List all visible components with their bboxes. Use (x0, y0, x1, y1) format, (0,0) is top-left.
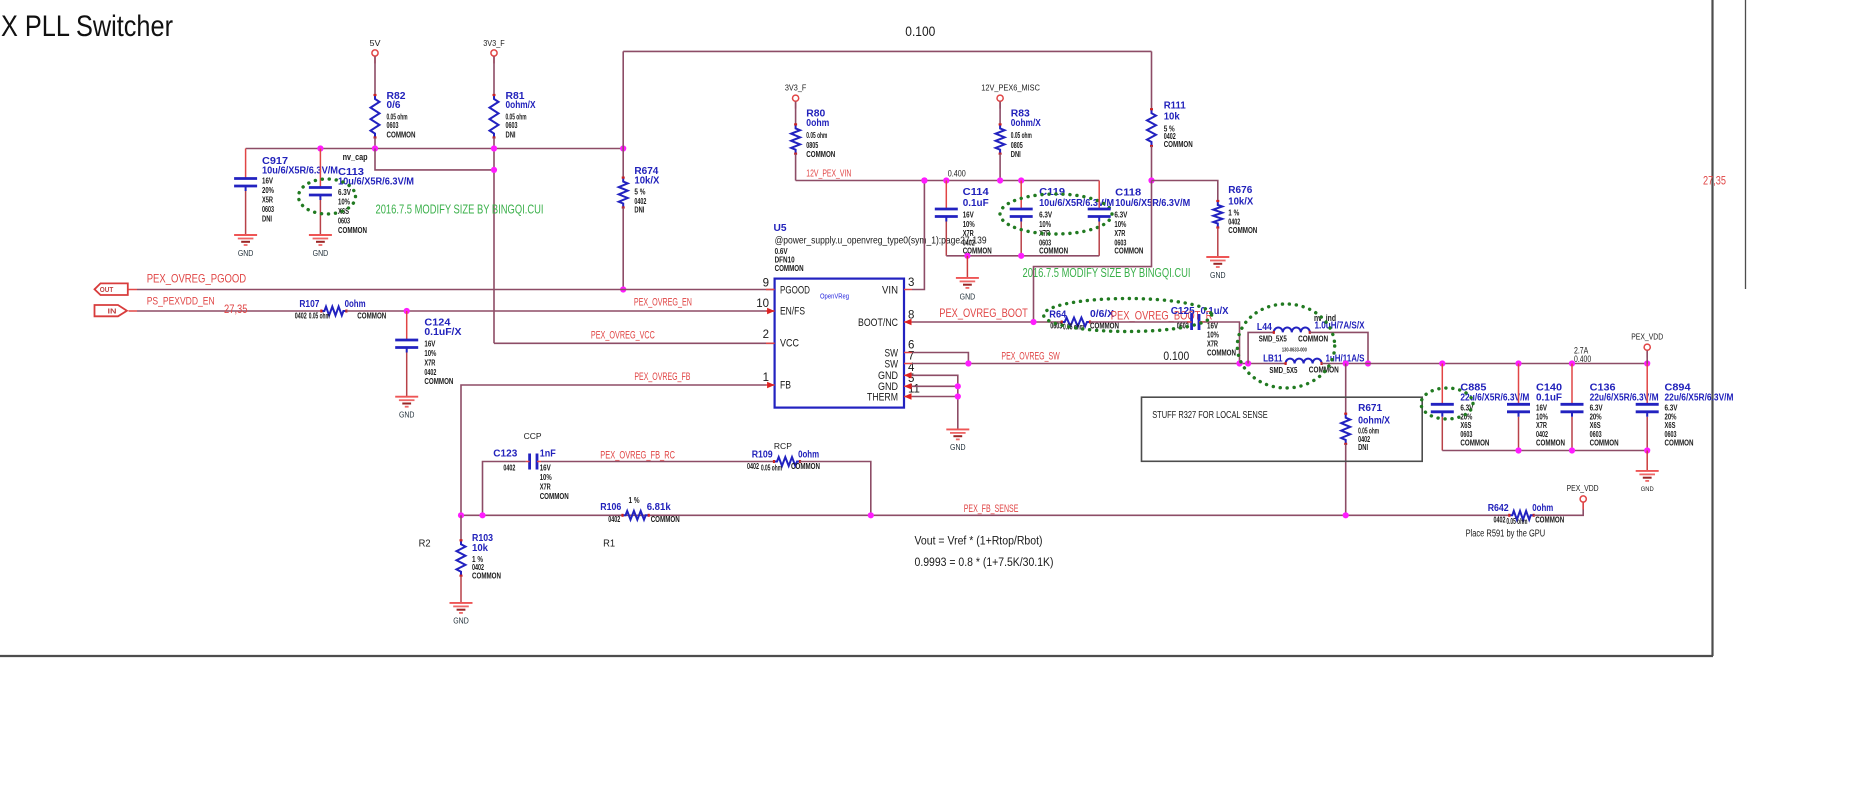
svg-text:OUT: OUT (100, 287, 114, 294)
wire R109 to right leg (800, 462, 871, 516)
svg-text:0.05 ohm: 0.05 ohm (309, 312, 330, 321)
svg-text:GND: GND (313, 249, 329, 258)
wire R81 to VCC corner (493, 138, 495, 344)
svg-text:C118: C118 (1115, 188, 1141, 199)
power symbol PEX_VDD second (1580, 496, 1586, 502)
ground under C113 (319, 234, 321, 236)
junction R82 bottom (372, 145, 378, 151)
U5 pin stubs (766, 289, 775, 291)
svg-text:X7R: X7R (963, 229, 974, 238)
wire PGOOD (137, 289, 775, 291)
ground under C894 (1646, 451, 1648, 471)
svg-text:R642: R642 (1488, 503, 1509, 514)
svg-text:LB11: LB11 (1263, 353, 1283, 364)
wire R82 to rail (374, 138, 376, 149)
svg-text:27,35: 27,35 (1703, 174, 1726, 188)
svg-text:OpenVReg: OpenVReg (820, 292, 849, 301)
junction GND pin 5 (955, 383, 961, 389)
svg-text:0.1uF/X: 0.1uF/X (424, 327, 461, 338)
note box STUFF R327 (1142, 397, 1423, 461)
capacitor C136 (1571, 364, 1573, 405)
resistor R107 (321, 307, 346, 316)
svg-text:COMMON: COMMON (1535, 515, 1564, 524)
resistor R674 (619, 178, 628, 208)
svg-text:0402: 0402 (503, 464, 515, 473)
junction FB vertical (458, 512, 464, 518)
svg-text:0.100: 0.100 (905, 24, 935, 39)
wire LB11 to output rail (1322, 363, 1648, 365)
svg-text:0.05 ohm: 0.05 ohm (1011, 131, 1032, 140)
junction caps bottom (1515, 447, 1521, 453)
svg-text:COMMON: COMMON (540, 492, 569, 501)
wire R642 to PEX_VDD (1534, 502, 1584, 515)
svg-text:1nF: 1nF (540, 448, 556, 459)
wire 12V_PEX_VIN rail (796, 180, 1100, 182)
inductor L44 (1274, 328, 1310, 333)
svg-text:PEX_OVREG_SW: PEX_OVREG_SW (1001, 350, 1060, 362)
green dotted ellipse around L44 LB11 (1237, 304, 1334, 388)
junction C136 at rail (1569, 360, 1575, 366)
svg-text:GND: GND (950, 443, 966, 452)
resistor R109 (774, 457, 800, 466)
svg-text:10%: 10% (424, 349, 436, 358)
svg-text:COMMON: COMMON (1298, 334, 1328, 343)
junction R674 top rail (620, 145, 626, 151)
svg-text:SW: SW (885, 358, 899, 370)
svg-text:COMMON: COMMON (387, 131, 416, 140)
svg-text:2016.7.5 MODIFY SIZE BY BINGQI: 2016.7.5 MODIFY SIZE BY BINGQI.CUI (376, 202, 544, 217)
svg-text:RCP: RCP (774, 441, 792, 451)
capacitor C113 (319, 149, 321, 188)
wire rail to R676 (1152, 181, 1218, 202)
svg-text:C123: C123 (493, 448, 517, 459)
svg-text:10%: 10% (1207, 331, 1219, 340)
svg-text:10k: 10k (472, 543, 488, 554)
junction C885 at rail (1439, 360, 1445, 366)
svg-text:0603: 0603 (506, 121, 518, 130)
svg-text:20%: 20% (1665, 412, 1677, 421)
junction BOOT cap at SW (1236, 360, 1242, 366)
resistor R106 (623, 511, 649, 520)
wire R80 to rail (795, 154, 797, 181)
svg-text:IN: IN (108, 309, 117, 316)
svg-text:0805: 0805 (806, 141, 818, 150)
resistor R82 (371, 95, 380, 138)
svg-text:6.3V: 6.3V (1590, 404, 1604, 413)
capacitor C140 (1518, 364, 1520, 405)
wire OUT stub (129, 289, 138, 291)
junction dots 12V rail (921, 177, 927, 183)
junction R674 at PGOOD (620, 286, 626, 292)
svg-text:0603: 0603 (1665, 430, 1677, 439)
wire rail A down to R111 (1151, 51, 1153, 109)
wire R676 to ground (1217, 228, 1219, 258)
svg-text:GND: GND (399, 411, 415, 420)
border inner vertical line (1745, 0, 1747, 289)
capacitor C123 (528, 454, 531, 470)
wire rail A down to R674 (622, 51, 624, 177)
resistor R64 (1062, 318, 1090, 327)
wire BOOT from U5 pin 8 (912, 321, 1062, 323)
resistor R83 (996, 124, 1005, 153)
capacitor C124 (406, 311, 408, 340)
svg-text:X6S: X6S (1460, 421, 1471, 430)
svg-text:R107: R107 (299, 299, 319, 310)
ground under C124 (406, 396, 408, 398)
svg-text:R671: R671 (1358, 403, 1382, 414)
resistor R642 (1509, 511, 1533, 520)
svg-text:C114: C114 (963, 187, 989, 198)
svg-text:0ohm: 0ohm (806, 118, 829, 129)
green dotted ellipse around C119 (1000, 194, 1112, 234)
U5 pin arrows (767, 308, 775, 314)
junction gnd tap (964, 253, 970, 259)
svg-text:0.05 ohm: 0.05 ohm (1506, 517, 1527, 526)
wire GND pin 4 (912, 375, 958, 429)
capacitor C125 (1190, 314, 1193, 330)
wire C123 to R109 (541, 461, 774, 463)
svg-text:COMMON: COMMON (1590, 439, 1619, 448)
wire LB11 tap down to R671 (1345, 364, 1347, 414)
svg-text:0402: 0402 (424, 368, 436, 377)
junction R671 bottom (1343, 512, 1349, 518)
svg-text:COMMON: COMMON (1536, 439, 1565, 448)
svg-text:R111: R111 (1164, 100, 1186, 111)
svg-text:PEX_VDD: PEX_VDD (1567, 483, 1599, 493)
svg-text:X PLL Switcher: X PLL Switcher (1, 10, 173, 43)
svg-text:X6S: X6S (1665, 421, 1676, 430)
svg-text:X5R: X5R (262, 196, 273, 205)
svg-text:FB: FB (780, 380, 791, 392)
svg-text:0.100: 0.100 (1163, 349, 1189, 363)
junction L44 at output (1365, 360, 1371, 366)
capacitor C894 (1646, 364, 1648, 405)
svg-text:VCC: VCC (780, 337, 799, 349)
svg-text:10%: 10% (1039, 220, 1051, 229)
ground under C917 (245, 234, 247, 236)
green dotted ellipse around C885 (1421, 388, 1473, 419)
junction C119 bottom (1018, 253, 1024, 259)
svg-text:0.05 ohm: 0.05 ohm (806, 131, 827, 140)
wire FB sense down to R103 (460, 515, 462, 540)
ground under cap group (966, 256, 968, 278)
ground under U5 (957, 428, 959, 430)
svg-text:0402: 0402 (608, 515, 620, 524)
power symbol 3V3_F (491, 50, 497, 56)
svg-text:COMMON: COMMON (1114, 247, 1143, 256)
svg-text:R1: R1 (603, 539, 615, 550)
svg-text:0ohm: 0ohm (1532, 503, 1553, 514)
capacitor C118 (1098, 181, 1100, 210)
svg-text:3V3_F: 3V3_F (483, 38, 505, 48)
wire SW pin 7 to inductors (912, 363, 1286, 365)
svg-text:COMMON: COMMON (1309, 366, 1339, 375)
resistor R111 (1147, 109, 1156, 146)
svg-text:COMMON: COMMON (1228, 226, 1257, 235)
wire SW up to L44 (1248, 332, 1274, 363)
svg-text:X7R: X7R (1114, 229, 1125, 238)
svg-text:DNI: DNI (634, 206, 644, 215)
svg-text:COMMON: COMMON (806, 150, 835, 159)
svg-text:16V: 16V (424, 340, 436, 349)
wire FB_RC left leg (483, 462, 526, 516)
wire IN stub (129, 310, 138, 312)
svg-text:SMD_5X5: SMD_5X5 (1269, 366, 1297, 375)
svg-text:X7R: X7R (1536, 421, 1547, 430)
junction R111 at rail (1148, 177, 1154, 183)
junction L44 branch at SW (1245, 360, 1251, 366)
svg-text:PEX_OVREG_PGOOD: PEX_OVREG_PGOOD (147, 272, 247, 286)
svg-text:0603: 0603 (262, 205, 274, 214)
svg-text:CCP: CCP (524, 431, 542, 441)
svg-text:0805: 0805 (1011, 141, 1023, 150)
svg-text:16V: 16V (262, 177, 274, 186)
svg-text:0402: 0402 (295, 312, 307, 321)
junction R81 bottom (491, 145, 497, 151)
svg-text:0603: 0603 (387, 121, 399, 130)
svg-text:X7R: X7R (1207, 339, 1218, 348)
wire output caps bottom (1442, 450, 1647, 452)
wire VIN pin to rail (912, 181, 924, 290)
svg-text:PEX_FB_SENSE: PEX_FB_SENSE (964, 503, 1019, 515)
svg-text:0ohm: 0ohm (345, 299, 366, 310)
svg-text:R676: R676 (1228, 185, 1252, 196)
border right line (1711, 0, 1713, 656)
svg-text:nv_cap: nv_cap (343, 152, 368, 162)
svg-text:DNI: DNI (506, 131, 516, 140)
junction C894 PEX_VDD at rail (1644, 360, 1650, 366)
wire nv_cap net (375, 149, 494, 170)
svg-text:VIN: VIN (882, 284, 898, 296)
svg-text:PEX_OVREG_FB: PEX_OVREG_FB (634, 371, 690, 383)
wire EN to R107 (137, 310, 321, 312)
svg-text:COMMON: COMMON (1207, 348, 1236, 357)
svg-text:X7R: X7R (540, 482, 551, 491)
svg-text:6.3V: 6.3V (1114, 211, 1128, 220)
junction nv_cap at 3V3 vertical (491, 167, 497, 173)
svg-text:22u/6/X5R/6.3V/M: 22u/6/X5R/6.3V/M (1590, 392, 1659, 403)
junction C124 tap (404, 308, 410, 314)
svg-text:0.1uF: 0.1uF (963, 198, 989, 209)
svg-text:PEX_OVREG_VCC: PEX_OVREG_VCC (591, 329, 655, 341)
svg-text:12V_PEX_VIN: 12V_PEX_VIN (806, 167, 851, 179)
svg-text:PEX_VDD: PEX_VDD (1631, 332, 1663, 342)
svg-text:R106: R106 (600, 502, 621, 513)
wire R671 to FB sense line (1345, 444, 1347, 515)
svg-text:10k/X: 10k/X (1228, 196, 1253, 207)
svg-text:3: 3 (908, 277, 914, 289)
resistor R81 (490, 95, 499, 138)
svg-text:R2: R2 (419, 539, 431, 550)
svg-text:COMMON: COMMON (651, 515, 680, 524)
svg-text:130-0633-000: 130-0633-000 (1282, 347, 1307, 353)
svg-text:U5: U5 (774, 223, 787, 234)
svg-text:6.3V: 6.3V (1665, 404, 1679, 413)
svg-text:6.3V: 6.3V (338, 188, 352, 197)
svg-text:GND: GND (1210, 271, 1226, 280)
ground under R676 (1217, 256, 1219, 258)
svg-text:0ohm: 0ohm (798, 450, 819, 461)
wire top rail y148 (246, 148, 624, 150)
svg-text:16V: 16V (963, 211, 975, 220)
wire C125 to SW net (1204, 322, 1240, 364)
svg-text:12V_PEX6_MISC: 12V_PEX6_MISC (981, 83, 1040, 93)
capacitor C917 (245, 149, 247, 179)
svg-text:PEX_OVREG_FB_RC: PEX_OVREG_FB_RC (600, 449, 675, 461)
svg-text:X7R: X7R (424, 359, 435, 368)
svg-text:10%: 10% (338, 198, 350, 207)
svg-text:0.05 ohm: 0.05 ohm (1358, 426, 1379, 435)
svg-text:X6S: X6S (1590, 421, 1601, 430)
green dotted ellipse around C113 (299, 179, 356, 214)
power symbol 5V (372, 50, 378, 56)
wire cap group bottom (946, 255, 1099, 257)
svg-text:10k: 10k (1164, 111, 1180, 122)
resistor R80 (791, 124, 800, 153)
svg-text:0/6: 0/6 (387, 100, 401, 111)
svg-text:COMMON: COMMON (338, 226, 367, 235)
svg-text:10%: 10% (1536, 412, 1548, 421)
svg-text:10u/6/X5R/6.3V/M: 10u/6/X5R/6.3V/M (1115, 198, 1190, 209)
wire R674 to PGOOD line (622, 208, 624, 290)
wire FB from U5 pin 1 (461, 385, 766, 515)
svg-text:COMMON: COMMON (472, 571, 501, 580)
svg-text:6.81k: 6.81k (647, 502, 671, 513)
wire R111 to 12V rail junction (1151, 146, 1153, 181)
wire branch to BOOT net (1034, 181, 1152, 323)
wire R64 to C125 (1090, 321, 1192, 323)
junction FB_RC right (868, 512, 874, 518)
svg-text:22u/6/X5R/6.3V/M: 22u/6/X5R/6.3V/M (1665, 392, 1734, 403)
wire R103 to ground (460, 576, 462, 603)
svg-text:Place R591 by the GPU: Place R591 by the GPU (1466, 528, 1546, 539)
svg-text:C119: C119 (1039, 187, 1065, 198)
svg-text:0603: 0603 (1590, 430, 1602, 439)
svg-text:3V3_F: 3V3_F (785, 83, 807, 93)
svg-text:EN/FS: EN/FS (780, 306, 805, 318)
border bottom line (0, 655, 1713, 657)
svg-text:0ohm/X: 0ohm/X (1358, 416, 1390, 427)
svg-text:COMMON: COMMON (1039, 247, 1068, 256)
svg-text:PEX_OVREG_BOOT_R: PEX_OVREG_BOOT_R (1111, 309, 1213, 323)
svg-text:1 %: 1 % (1228, 208, 1239, 217)
svg-text:20%: 20% (1590, 412, 1602, 421)
power symbol PEX_VDD (1644, 344, 1650, 350)
junction SW pins (965, 360, 971, 366)
svg-text:GND: GND (960, 293, 976, 302)
svg-text:GND: GND (238, 249, 254, 258)
wire SW pin 6 (912, 353, 968, 364)
wire L44 to output rail (1310, 332, 1368, 363)
wire GND pin 5 (912, 385, 958, 387)
svg-text:10u/6/X5R/6.3V/M: 10u/6/X5R/6.3V/M (262, 166, 338, 177)
svg-text:0.400: 0.400 (1574, 354, 1591, 364)
svg-text:SMD_5X5: SMD_5X5 (1259, 334, 1287, 343)
svg-text:1.0uH/7A/S/X: 1.0uH/7A/S/X (1315, 321, 1365, 332)
capacitor C885 (1441, 364, 1443, 405)
svg-text:R64: R64 (1049, 310, 1066, 321)
junction FB_RC left (479, 512, 485, 518)
green dotted ellipse around R64 BOOT (1044, 299, 1212, 332)
svg-text:DNI: DNI (1011, 150, 1021, 159)
wire THERM pin 11 (912, 396, 958, 398)
svg-text:COMMON: COMMON (1665, 439, 1694, 448)
svg-text:10%: 10% (1114, 220, 1126, 229)
wire 12V_PEX6_MISC to R83 (999, 102, 1001, 125)
svg-text:20%: 20% (262, 186, 274, 195)
svg-text:PS_PEXVDD_EN: PS_PEXVDD_EN (147, 296, 215, 308)
wire R107 to U5 pin 10 (346, 310, 774, 312)
svg-text:DNI: DNI (1358, 443, 1368, 452)
port IN (95, 305, 127, 316)
svg-text:COMMON: COMMON (791, 462, 820, 471)
svg-text:GND: GND (453, 617, 469, 626)
svg-text:10%: 10% (963, 220, 975, 229)
resistor R671 (1341, 414, 1350, 444)
svg-text:0603: 0603 (338, 217, 350, 226)
svg-text:COMMON: COMMON (1460, 439, 1489, 448)
svg-text:BOOT/NC: BOOT/NC (858, 317, 898, 329)
svg-text:COMMON: COMMON (1164, 140, 1193, 149)
svg-text:R109: R109 (752, 450, 773, 461)
svg-text:0402: 0402 (1536, 430, 1548, 439)
svg-text:PGOOD: PGOOD (780, 284, 810, 296)
junction C113 top (317, 145, 323, 151)
svg-text:10%: 10% (540, 473, 552, 482)
wire 5V to R82 (374, 56, 376, 95)
svg-text:5V: 5V (370, 38, 381, 48)
wire 3V3_F to R80 (795, 102, 797, 125)
ic U5 outline (775, 279, 904, 408)
svg-text:THERM: THERM (867, 391, 898, 403)
svg-text:PEX_OVREG_EN: PEX_OVREG_EN (634, 297, 692, 309)
svg-text:27,35: 27,35 (224, 302, 248, 316)
svg-text:0402: 0402 (747, 462, 759, 471)
svg-text:L44: L44 (1257, 322, 1272, 333)
power symbol 3V3_F second (793, 95, 799, 101)
svg-text:0.05 ohm: 0.05 ohm (1063, 323, 1084, 332)
svg-text:PEX_OVREG_BOOT: PEX_OVREG_BOOT (939, 306, 1028, 320)
svg-text:COMMON: COMMON (424, 377, 453, 386)
svg-text:0.05 ohm: 0.05 ohm (761, 463, 782, 472)
svg-text:16V: 16V (1536, 404, 1548, 413)
svg-text:10: 10 (756, 298, 769, 310)
wire FB sense line (461, 514, 1509, 516)
junction C140 at rail (1515, 360, 1521, 366)
svg-text:5 %: 5 % (634, 188, 645, 197)
svg-text:C125: C125 (1171, 306, 1195, 317)
resistor R676 (1213, 201, 1222, 228)
svg-text:0603: 0603 (1460, 430, 1472, 439)
resistor R103 (457, 540, 466, 575)
svg-text:1: 1 (763, 372, 769, 384)
svg-text:DNI: DNI (262, 215, 272, 224)
svg-text:COMMON: COMMON (775, 264, 804, 273)
svg-text:0.9993 = 0.8 * (1+7.5K/30.1K): 0.9993 = 0.8 * (1+7.5K/30.1K) (915, 557, 1054, 569)
port OUT (95, 283, 128, 295)
junction BOOT branch (1030, 319, 1036, 325)
svg-text:Vout = Vref * (1+Rtop/Rbot): Vout = Vref * (1+Rtop/Rbot) (915, 536, 1043, 548)
svg-text:STUFF R327 FOR LOCAL SENSE: STUFF R327 FOR LOCAL SENSE (1152, 410, 1268, 421)
svg-text:@power_supply.u_openvreg_type0: @power_supply.u_openvreg_type0(sym_1):pa… (775, 235, 987, 247)
inductor LB11 (1286, 359, 1322, 364)
svg-text:0.400: 0.400 (948, 168, 966, 178)
ground under R103 (460, 602, 462, 604)
wire top rail A (623, 50, 1151, 52)
power symbol 12V_PEX6_MISC (997, 95, 1003, 101)
svg-text:0402: 0402 (1494, 515, 1506, 524)
capacitor C114 (945, 181, 947, 210)
